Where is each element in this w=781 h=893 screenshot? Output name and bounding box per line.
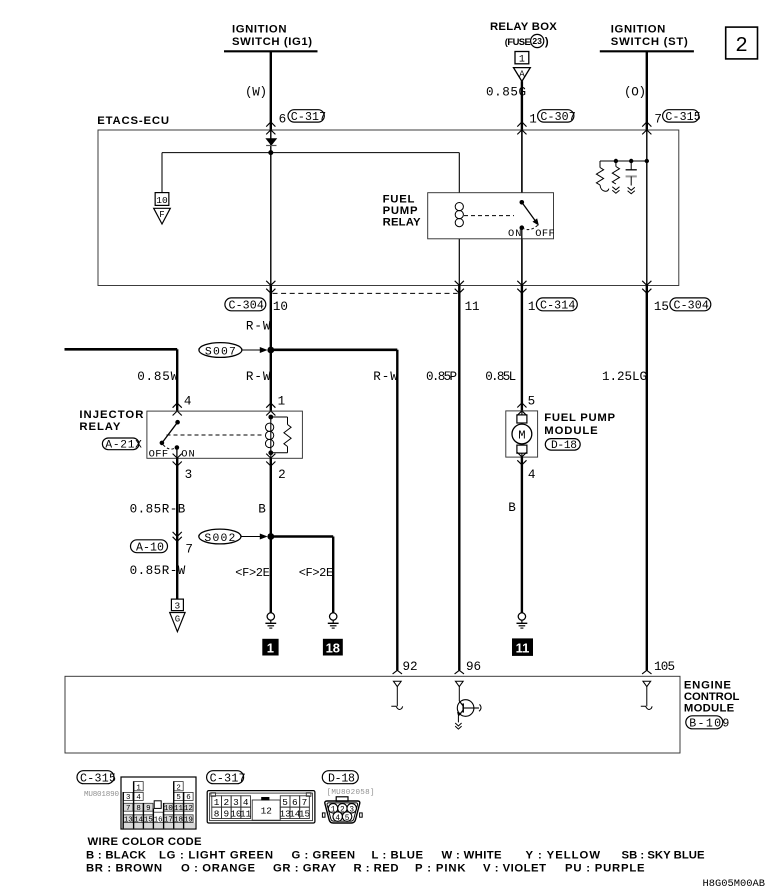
svg-text:GR : GRAY: GR : GRAY (273, 863, 336, 875)
svg-text:1: 1 (267, 640, 274, 655)
svg-text:R : RED: R : RED (354, 863, 399, 875)
svg-text:15: 15 (299, 809, 311, 820)
svg-text:IGNITION: IGNITION (611, 24, 666, 36)
svg-text:4: 4 (184, 395, 192, 409)
svg-text:A-21X: A-21X (105, 440, 142, 452)
svg-text:<F>2E: <F>2E (299, 566, 334, 580)
svg-text:S002: S002 (204, 533, 235, 545)
svg-text:9: 9 (223, 809, 229, 820)
svg-text:H8G05M00AB: H8G05M00AB (703, 878, 766, 890)
svg-text:14: 14 (134, 816, 143, 824)
svg-text:<F>2E: <F>2E (235, 566, 269, 580)
svg-text:3: 3 (233, 797, 239, 808)
svg-text:): ) (545, 36, 549, 48)
svg-text:105: 105 (654, 660, 675, 674)
svg-text:S007: S007 (205, 346, 236, 358)
svg-text:O : ORANGE: O : ORANGE (181, 863, 255, 875)
svg-text:2: 2 (223, 797, 229, 808)
svg-text:3: 3 (175, 600, 181, 611)
svg-text:IGNITION: IGNITION (232, 24, 287, 36)
svg-text:SB : SKY BLUE: SB : SKY BLUE (622, 849, 705, 861)
svg-text:1: 1 (278, 395, 286, 409)
svg-text:2: 2 (278, 468, 286, 482)
svg-text:B-109: B-109 (689, 718, 729, 731)
svg-text:B: B (258, 502, 266, 516)
svg-text:F: F (159, 210, 164, 220)
svg-text:M: M (518, 428, 525, 442)
svg-text:C-315: C-315 (665, 111, 700, 124)
svg-text:INJECTOR: INJECTOR (79, 409, 143, 421)
svg-text:5: 5 (345, 815, 350, 823)
svg-text:6: 6 (279, 113, 287, 127)
svg-text:G : GREEN: G : GREEN (292, 849, 356, 861)
svg-text:0.85L: 0.85L (485, 370, 516, 384)
svg-text:96: 96 (466, 660, 481, 674)
svg-text:D-18: D-18 (328, 773, 355, 786)
svg-text:16: 16 (154, 816, 163, 824)
svg-text:B : BLACK: B : BLACK (86, 849, 147, 861)
svg-text:7: 7 (185, 543, 193, 557)
svg-text:3: 3 (126, 794, 130, 802)
svg-text:SWITCH (ST): SWITCH (ST) (611, 36, 688, 48)
svg-text:92: 92 (403, 660, 418, 674)
svg-text:15: 15 (654, 300, 669, 314)
svg-text:18: 18 (174, 816, 183, 824)
svg-text:R-W: R-W (373, 370, 398, 384)
svg-text:ON: ON (508, 228, 522, 240)
svg-text:C-304: C-304 (674, 300, 709, 313)
svg-text:RELAY: RELAY (383, 217, 421, 229)
svg-text:4: 4 (243, 797, 249, 808)
svg-text:9: 9 (146, 805, 150, 813)
svg-text:A-10: A-10 (136, 542, 164, 555)
svg-text:17: 17 (164, 816, 173, 824)
svg-text:W : WHITE: W : WHITE (442, 849, 502, 861)
svg-text:MODULE: MODULE (684, 703, 735, 715)
svg-text:ON: ON (181, 448, 195, 460)
svg-text:Y : YELLOW: Y : YELLOW (526, 849, 601, 861)
svg-text:C-315: C-315 (80, 773, 116, 786)
svg-text:7: 7 (302, 797, 308, 808)
svg-text:RELAY BOX: RELAY BOX (490, 21, 557, 33)
svg-text:11: 11 (516, 640, 530, 655)
svg-text:8: 8 (136, 805, 140, 813)
svg-text:BR : BROWN: BR : BROWN (86, 863, 162, 875)
svg-text:7: 7 (654, 113, 662, 127)
svg-text:4: 4 (335, 815, 340, 823)
svg-text:0.85W: 0.85W (137, 370, 178, 384)
svg-text:R-W: R-W (246, 370, 271, 384)
svg-text:0.85G: 0.85G (486, 85, 526, 99)
svg-text:[MU802058]: [MU802058] (327, 789, 375, 797)
svg-text:OFF: OFF (149, 448, 169, 460)
svg-text:MU801890: MU801890 (84, 791, 119, 799)
svg-text:MODULE: MODULE (544, 425, 598, 437)
svg-text:C-314: C-314 (540, 300, 575, 313)
svg-text:P : PINK: P : PINK (415, 863, 466, 875)
svg-text:RELAY: RELAY (79, 421, 120, 433)
svg-text:2: 2 (176, 785, 180, 793)
svg-text:OFF: OFF (535, 228, 555, 240)
svg-text:C-317: C-317 (291, 111, 326, 124)
svg-text:PUMP: PUMP (383, 205, 418, 217)
svg-text:0.85R-W: 0.85R-W (130, 564, 186, 578)
svg-text:11: 11 (240, 809, 252, 820)
svg-text:FUEL: FUEL (383, 194, 415, 206)
svg-text:11: 11 (174, 805, 183, 813)
svg-text:(O): (O) (624, 85, 646, 99)
svg-text:23: 23 (532, 36, 542, 46)
svg-text:19: 19 (184, 816, 193, 824)
svg-text:7: 7 (126, 805, 130, 813)
svg-text:4: 4 (136, 794, 141, 802)
svg-text:0.85R-B: 0.85R-B (130, 502, 186, 516)
svg-text:ETACS-ECU: ETACS-ECU (97, 115, 169, 127)
svg-text:(FUSE: (FUSE (505, 36, 531, 47)
svg-text:C-307: C-307 (540, 111, 575, 124)
svg-text:WIRE COLOR CODE: WIRE COLOR CODE (88, 836, 202, 848)
svg-text:G: G (175, 614, 180, 624)
svg-text:3: 3 (185, 468, 193, 482)
svg-text:18: 18 (326, 640, 340, 655)
svg-text:2: 2 (735, 35, 748, 58)
svg-text:C-304: C-304 (229, 300, 264, 313)
svg-text:A: A (519, 69, 525, 79)
svg-text:10: 10 (156, 195, 168, 206)
svg-text:C-317: C-317 (210, 773, 246, 786)
svg-text:R-W: R-W (246, 320, 271, 334)
svg-text:(W): (W) (245, 85, 267, 99)
svg-text:13: 13 (124, 816, 133, 824)
svg-text:SWITCH (IG1): SWITCH (IG1) (232, 36, 312, 48)
svg-text:V : VIOLET: V : VIOLET (483, 863, 546, 875)
svg-text:4: 4 (528, 468, 536, 482)
svg-text:1: 1 (519, 55, 525, 66)
svg-text:PU : PURPLE: PU : PURPLE (565, 863, 645, 875)
svg-text:5: 5 (176, 794, 180, 802)
svg-text:D-18: D-18 (551, 440, 577, 452)
svg-text:B: B (508, 501, 516, 515)
svg-text:10: 10 (273, 300, 288, 314)
svg-text:1.25LG: 1.25LG (602, 370, 647, 384)
svg-text:1: 1 (136, 785, 141, 793)
svg-text:5: 5 (528, 395, 536, 409)
svg-text:LG : LIGHT GREEN: LG : LIGHT GREEN (159, 849, 273, 861)
svg-text:1: 1 (214, 797, 220, 808)
svg-text:6: 6 (292, 797, 298, 808)
svg-text:1: 1 (529, 113, 537, 127)
svg-text:15: 15 (144, 816, 153, 824)
svg-text:CONTROL: CONTROL (684, 691, 740, 703)
svg-text:8: 8 (214, 809, 220, 820)
svg-text:5: 5 (282, 797, 288, 808)
svg-text:ENGINE: ENGINE (684, 679, 731, 691)
svg-text:L : BLUE: L : BLUE (372, 849, 424, 861)
svg-text:10: 10 (164, 805, 173, 813)
svg-text:11: 11 (465, 300, 480, 314)
svg-text:0.85P: 0.85P (426, 370, 457, 384)
svg-text:1: 1 (528, 300, 536, 314)
svg-text:FUEL PUMP: FUEL PUMP (544, 412, 615, 424)
svg-text:12: 12 (261, 805, 272, 816)
svg-text:6: 6 (186, 794, 190, 802)
svg-text:12: 12 (184, 805, 193, 813)
